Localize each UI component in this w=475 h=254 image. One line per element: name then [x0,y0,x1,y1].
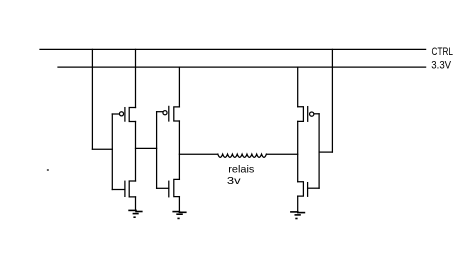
transistor Q4 NMOS channel [174,179,180,196]
transistor Q2 NMOS channel [129,181,135,197]
transistor Q2 NMOS gate plate [124,181,126,196]
wire CTRL to inverter1 input (vertical) [91,49,93,149]
wire CTRL to inverter3 input (vertical) [331,49,333,152]
transistor Q1 PMOS gate bubble [119,112,123,116]
wire Q4 source to ground [178,197,180,212]
ground G1 [129,210,142,217]
transistor Q5 PMOS channel (mirrored) [298,107,304,122]
transistor Q4 NMOS gate plate [168,181,170,197]
svg-text:CTRL: CTRL [432,46,454,58]
wire relay to inverter3 output node [266,153,297,155]
transistor Q1 PMOS gate plate [124,108,126,122]
transistor Q6 NMOS gate lead [308,187,320,189]
transistor Q3 PMOS channel [174,107,180,121]
ground G2 [173,212,186,219]
wire 3.3V rail [58,66,426,68]
svg-text:3v: 3v [227,175,242,187]
wire inverter2 output node (vertical drain link) [178,121,180,179]
wire CTRL to Q1 drain (vertical) [135,49,137,107]
wire inverter3 gate (vertical) [318,114,320,188]
wire inverter2 output to relay (horizontal) [179,153,217,155]
wire 3.3V to Q3 drain (vertical) [178,67,180,107]
wire Q2 source to ground [135,197,137,211]
transistor Q3 PMOS gate bubble [163,111,167,115]
wire inverter1 output node (vertical drain link) [135,122,137,182]
transistor Q5 PMOS gate lead [314,113,319,115]
stray dot mark [47,169,50,171]
svg-text:relais: relais [228,163,254,175]
wire inverter3 input (horizontal) [319,151,332,153]
wire Q6 source to ground [297,196,299,212]
transistor Q3 PMOS gate lead [157,111,163,113]
wire CTRL rail [40,48,426,50]
wire inverter2 gate (vertical) [156,112,158,189]
transistor Q3 PMOS gate plate [168,106,170,121]
wire 3.3V to Q5 source (vertical) [297,67,299,107]
transistor Q1 PMOS gate lead [112,113,119,115]
transistor Q2 NMOS gate lead [112,189,125,191]
svg-text:3.3V: 3.3V [431,59,451,71]
ground G3 [291,212,305,219]
transistor Q5 PMOS gate bubble [310,112,314,116]
transistor Q5 PMOS gate plate [307,107,309,122]
transistor Q6 NMOS channel (mirrored) [298,182,304,196]
relay coil K1 [218,154,267,157]
transistor Q4 NMOS gate lead [157,187,169,189]
wire inverter3 output node (vertical drain link) [297,121,299,181]
wire inverter1 input (horizontal) [92,148,112,150]
transistor Q6 NMOS gate plate [307,183,309,197]
transistor Q1 PMOS channel [129,108,135,122]
wire inverter1 output to inverter2 input [136,147,157,149]
wire inverter1 gate (vertical) [111,114,113,190]
